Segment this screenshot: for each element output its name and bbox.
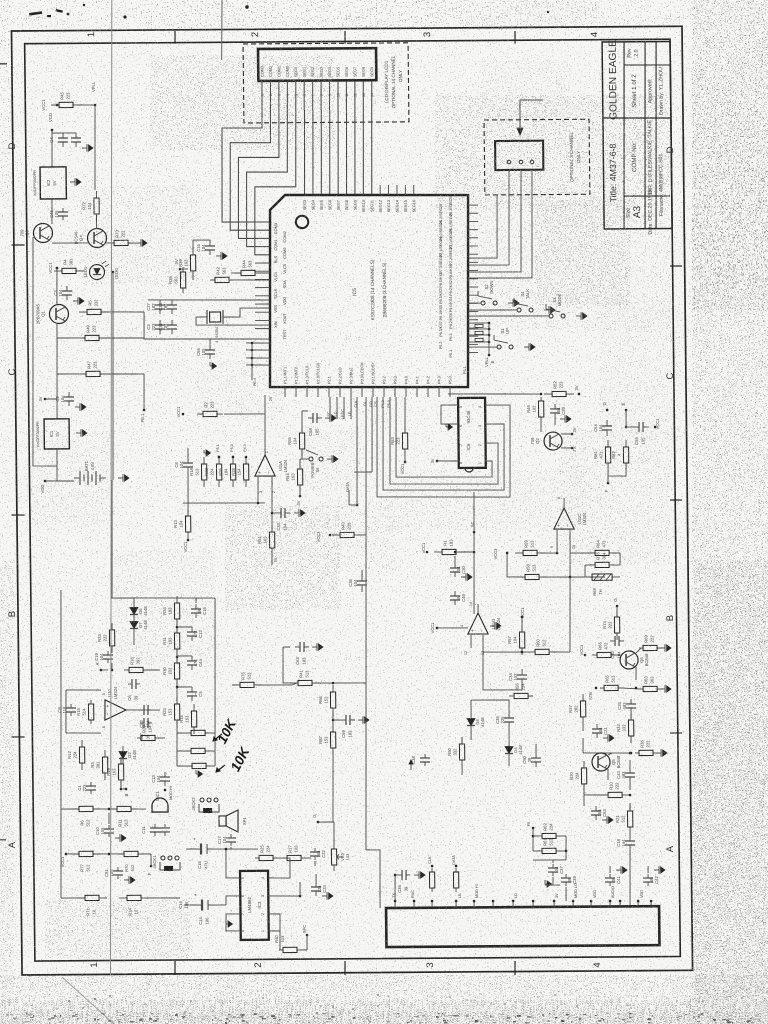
resistor R65: [600, 674, 622, 690]
wire: [148, 338, 200, 341]
ground: [124, 876, 135, 884]
ground: [508, 299, 519, 307]
resistor R19: [106, 757, 124, 787]
ground: [490, 622, 501, 630]
wire: [64, 690, 67, 733]
node B: [124, 788, 129, 797]
wire: [483, 648, 527, 653]
resistor R74: [602, 610, 620, 640]
ground: [603, 734, 614, 742]
capacitor C10: [95, 825, 114, 837]
capacitor C43: [616, 768, 635, 782]
wire: [437, 460, 458, 462]
paper crease bottom-left diagonal: [62, 977, 114, 1024]
IC5 part number text: [352, 259, 388, 320]
wire: [52, 132, 76, 134]
capacitor C58: [308, 413, 322, 436]
wire: [283, 646, 290, 648]
diode D6: [130, 602, 148, 620]
wire: [468, 302, 481, 304]
resistor R41: [290, 669, 320, 685]
op-amp U11A: [255, 455, 288, 476]
IC5 top pin leads SEG3-SEG18: [303, 185, 417, 213]
capacitor C33: [276, 508, 290, 531]
title block text: [607, 40, 667, 235]
resistor R47: [78, 360, 108, 376]
ground: [560, 415, 571, 423]
grid tick marks top: [174, 31, 176, 44]
ground: [656, 749, 667, 757]
regulator IC2: [33, 167, 67, 199]
node F: [147, 865, 153, 876]
resistor R25: [255, 844, 277, 860]
resistor R82: [611, 440, 629, 470]
node STB: [588, 687, 597, 700]
capacitor C6: [127, 679, 140, 701]
node 3V: [571, 427, 577, 435]
wire: [193, 240, 210, 255]
LCD1 text: [384, 55, 404, 108]
wire: [614, 654, 620, 656]
ground: [226, 920, 233, 927]
RF module connector CON1: [386, 906, 659, 947]
inner border frame: [25, 39, 681, 961]
wire: [583, 795, 585, 806]
wire: [559, 835, 566, 837]
resistor R12: [67, 740, 85, 770]
wire: [226, 914, 240, 931]
wire: [621, 688, 641, 689]
node VCC1: [183, 539, 190, 553]
wire: [357, 534, 366, 536]
ground: [82, 144, 93, 152]
wire: [330, 397, 351, 419]
wire: [561, 433, 572, 435]
resistor R61: [538, 837, 560, 853]
capacitor C54: [593, 420, 612, 436]
diode D7: [130, 616, 148, 634]
resistor R2: [197, 401, 223, 417]
wire: [58, 590, 65, 898]
audio amplifier IC3 LM4862: [240, 871, 269, 940]
wire PE.1: [143, 374, 146, 410]
resistor R10: [604, 781, 626, 797]
ground: [204, 450, 211, 456]
ground: [660, 644, 671, 652]
op-amp U10: [105, 686, 127, 720]
wire: [111, 646, 113, 651]
capacitor C22: [310, 848, 326, 860]
switch S3: [546, 293, 565, 318]
resistor R32: [616, 713, 634, 743]
node VCC1: [421, 542, 428, 553]
regulator IC1: [36, 419, 70, 449]
resistor R36: [635, 739, 657, 755]
wire: [470, 731, 472, 740]
wire: [532, 828, 535, 851]
speaker SP1: [219, 810, 247, 832]
IC5 left pin leads: [254, 223, 288, 340]
capacitor C51: [104, 867, 123, 879]
wire: [280, 931, 283, 950]
wire: [616, 606, 618, 617]
wire: [229, 308, 270, 317]
capacitor C35: [158, 300, 177, 314]
LCD connector pin numbers: [261, 93, 375, 98]
wire: [470, 635, 472, 648]
node VCC1: [176, 406, 184, 418]
ground: [294, 509, 305, 517]
wire: [268, 914, 280, 931]
capacitor C11: [141, 824, 160, 836]
switch S2: [478, 280, 497, 305]
capacitor C20: [450, 563, 466, 577]
IC6 pin numbers: [458, 406, 482, 464]
wire: [271, 477, 272, 530]
ground: [545, 880, 552, 887]
resistor R14: [119, 895, 149, 916]
wire G bus: [364, 683, 368, 850]
capacitor C29: [550, 404, 566, 418]
wire: [332, 708, 334, 725]
capacitor: [71, 133, 81, 147]
resistor R48: [188, 763, 210, 768]
capacitor C4: [49, 133, 68, 147]
resistor R23: [162, 697, 180, 727]
wire bus IC5 to IC6: [376, 396, 511, 498]
node VCO: [48, 112, 53, 131]
ground: [196, 770, 203, 777]
node X: [38, 396, 46, 401]
wire: [187, 473, 190, 516]
resistor R59: [515, 539, 545, 555]
ground: [76, 429, 87, 437]
resistor R50: [447, 737, 465, 767]
resistor R62: [538, 822, 560, 838]
wire: [209, 339, 211, 345]
capacitor C13: [151, 772, 170, 786]
resistor R29: [137, 724, 159, 740]
wire: [394, 875, 397, 901]
ground: [327, 455, 338, 463]
resistor R64: [587, 539, 617, 555]
wire: [268, 858, 290, 878]
resistor R28: [231, 457, 249, 487]
capacitor C24: [311, 882, 327, 896]
resistor R33: [97, 623, 115, 653]
transistor Q5: [592, 753, 621, 771]
wire: [186, 848, 193, 850]
node VCC3: [493, 548, 509, 560]
capacitor C44: [187, 656, 203, 670]
node CLK: [428, 856, 433, 867]
wire: [104, 311, 144, 314]
ground: [73, 297, 84, 305]
resistor R77: [71, 851, 101, 872]
resistor R26: [218, 457, 236, 487]
paper crease top short: [221, 0, 223, 60]
ground: [115, 834, 126, 842]
jack JACK2: [191, 797, 219, 813]
crystal X1: [201, 310, 229, 343]
capacitor C37: [548, 864, 564, 876]
node E: [621, 402, 627, 411]
wire: [177, 732, 188, 734]
capacitor C53: [591, 806, 607, 820]
diode D4: [505, 741, 523, 759]
resistor R42: [210, 266, 234, 282]
node VCC1: [579, 644, 586, 656]
arrow node: [409, 754, 430, 770]
ground: [325, 414, 336, 422]
wire: [629, 760, 631, 768]
wire: [454, 556, 456, 563]
wire P6 junctions: [246, 342, 270, 367]
wire: [148, 299, 270, 301]
wire: [625, 410, 627, 427]
resistor R5: [79, 299, 109, 315]
wire: [441, 405, 458, 424]
grid tick marks left: [11, 244, 24, 246]
capacitor C59: [341, 715, 355, 738]
wire: [271, 555, 273, 565]
ground: [524, 343, 535, 351]
capacitor C17: [217, 834, 236, 846]
resistor R67: [187, 748, 209, 753]
resistor R75: [232, 671, 262, 687]
resistor R40: [279, 947, 301, 952]
capacitor C47: [139, 718, 152, 741]
transistor Q6: [620, 651, 649, 669]
capacitor C56: [196, 345, 215, 359]
microphone MIC1: [152, 790, 168, 812]
IC5 bottom pin leads: [269, 361, 453, 401]
transistor Q4: [73, 228, 106, 247]
wire resistor bus: [183, 502, 265, 503]
capacitor C2: [146, 320, 165, 334]
resistor R52: [544, 380, 574, 396]
wire: [45, 398, 57, 400]
node A: [95, 662, 102, 671]
wire: [208, 732, 215, 734]
node VCC1: [41, 99, 58, 111]
resistor R18: [189, 457, 207, 487]
signal labels: [354, 400, 391, 408]
node SC: [470, 492, 476, 533]
transistor Q3: [19, 223, 52, 242]
capacitor C21: [592, 724, 608, 738]
capacitor C2: [55, 392, 74, 406]
optional 3 channel dashed enclosure: [484, 119, 590, 195]
wire: [60, 897, 62, 899]
title block: [601, 41, 672, 229]
resistor R43: [332, 521, 362, 537]
capacitor C16: [196, 241, 215, 255]
node TX: [571, 446, 577, 451]
node F5: [526, 821, 534, 829]
node VPLL: [91, 81, 96, 106]
wire: [608, 470, 626, 476]
switch S1: [494, 328, 513, 349]
ground: [312, 643, 323, 651]
resistor R49: [77, 324, 107, 340]
ground: [216, 252, 227, 260]
capacitor C3: [53, 286, 72, 300]
wire: [142, 897, 180, 900]
node G: [613, 598, 618, 608]
wire: [51, 130, 54, 167]
node 3V: [296, 495, 302, 506]
wire: [448, 393, 541, 394]
resistor R31: [162, 626, 180, 656]
wire 3ch box to IC5: [467, 170, 533, 279]
wire: [176, 619, 178, 633]
node DATA: [345, 482, 358, 507]
microcontroller IC5 KS57C2308: [268, 194, 470, 389]
capacitor C12: [187, 627, 203, 641]
wire: [552, 860, 554, 863]
signal labels SC LD LEDC LE: [327, 409, 352, 420]
connector J2 (3 channel): [495, 141, 543, 170]
CON1 pins: [394, 898, 653, 910]
wire: [629, 803, 631, 811]
wire bus IC5 down: [353, 397, 375, 683]
wire: [625, 794, 630, 796]
wire: [437, 627, 468, 629]
resistor R3: [90, 750, 108, 780]
capacitor C27: [146, 300, 165, 314]
wire: [306, 935, 308, 950]
antenna arrow: [517, 100, 544, 135]
wire: [180, 268, 188, 270]
resistor R53: [390, 426, 408, 456]
ground: [544, 306, 555, 314]
wire: [608, 753, 612, 755]
resistor R15: [76, 700, 94, 724]
resistor R4: [54, 258, 84, 274]
node VCC1: [654, 418, 660, 429]
ground: [576, 312, 587, 320]
resistor R69: [639, 634, 661, 650]
wire bundle LCD connector to IC5: [220, 80, 373, 255]
resistor R45: [51, 91, 81, 107]
node PE.1: [140, 409, 146, 423]
node VCC3: [316, 531, 332, 543]
resistor R72: [81, 191, 99, 221]
wire: [361, 570, 363, 576]
wire: [468, 346, 497, 348]
ground: [602, 816, 613, 824]
resistor R58b: [187, 730, 209, 735]
wire: [609, 866, 611, 873]
node VCC1: [48, 262, 58, 274]
resistor R76: [118, 851, 144, 856]
capacitor C5: [187, 687, 203, 701]
wire: [257, 684, 292, 686]
resistor R11: [109, 806, 139, 826]
capacitor C52: [139, 705, 152, 728]
ground: [654, 866, 665, 874]
resistor R13: [173, 509, 191, 539]
capacitor C55: [633, 422, 649, 445]
capacitor C23: [617, 699, 636, 713]
resistor R57: [507, 625, 525, 655]
resistor R66: [318, 685, 336, 715]
capacitor C45: [49, 208, 68, 220]
wire: [521, 617, 523, 632]
node LEDC: [112, 268, 119, 279]
resistor R63: [639, 675, 661, 691]
node DATA: [452, 855, 457, 868]
resistor R46: [526, 397, 544, 421]
resistor R30: [162, 656, 180, 686]
ground: [461, 573, 472, 581]
grid tick marks right: [670, 265, 682, 267]
wire: [51, 199, 54, 224]
wire: [332, 748, 334, 822]
ground: [322, 892, 333, 900]
LCD connector pin labels: [260, 65, 374, 77]
wire: [30, 237, 57, 466]
resistor R51: [257, 525, 275, 555]
node VCC1: [400, 461, 407, 475]
ground: [616, 866, 627, 874]
capacitor C15 (electrolytic): [192, 837, 215, 869]
node 3V: [574, 385, 580, 395]
wire main vertical bus: [111, 272, 116, 480]
wire: [226, 849, 240, 878]
resistor R17: [283, 844, 305, 860]
wire: [101, 669, 108, 671]
ground: [446, 424, 453, 430]
capacitor C41: [605, 874, 621, 886]
wire: [488, 342, 490, 355]
wire: [101, 373, 144, 376]
wire: [468, 309, 517, 312]
battery BAT1: [74, 460, 106, 485]
resistor R76: [590, 551, 614, 567]
node VCC1: [520, 607, 525, 618]
capacitor: [160, 824, 170, 836]
ground: [414, 871, 425, 879]
resistor R21: [615, 804, 633, 834]
capacitor C9: [57, 704, 76, 716]
wire: [224, 413, 265, 415]
EEPROM IC6 93C46: [458, 398, 486, 472]
resistor R73: [106, 229, 136, 245]
ground: [358, 716, 369, 724]
potentiometer VR3: [331, 843, 350, 871]
switch S4: [514, 289, 533, 312]
resistor R1: [434, 539, 464, 555]
resistor R35: [168, 267, 186, 293]
resistor R6: [71, 806, 101, 826]
capacitor C50: [522, 753, 541, 767]
ground: [136, 239, 147, 247]
IC5 right pin leads: [437, 196, 479, 358]
capacitor C42: [643, 874, 659, 886]
wire: [507, 553, 522, 577]
resistor R63: [429, 868, 434, 892]
resistor R71: [77, 895, 107, 916]
node VCC1: [430, 622, 438, 634]
capacitor C63: [295, 642, 309, 665]
wire: [477, 604, 479, 613]
node F: [604, 482, 609, 493]
capacitor C39: [561, 874, 577, 886]
resistor R16: [124, 656, 148, 672]
op-amp U11C: [554, 508, 587, 529]
